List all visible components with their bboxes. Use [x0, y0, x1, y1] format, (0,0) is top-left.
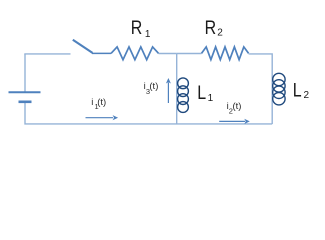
current arrow i1	[86, 115, 119, 120]
battery B1 short plate	[19, 101, 32, 104]
svg-text:1: 1	[145, 29, 151, 40]
label L2	[293, 79, 302, 101]
svg-text:1: 1	[208, 93, 214, 104]
svg-text:i: i	[91, 97, 93, 108]
svg-text:R: R	[131, 17, 143, 39]
label R1	[131, 17, 143, 39]
inductor L2 coil	[273, 73, 285, 105]
svg-text:L: L	[197, 81, 206, 103]
svg-text:2: 2	[217, 27, 223, 38]
battery B1 long plate	[9, 91, 41, 93]
wire switch to R1	[92, 52, 111, 54]
label i2(t)	[227, 101, 242, 115]
current arrow i3 (up)	[166, 78, 171, 103]
svg-text:L: L	[293, 79, 302, 101]
svg-text:(t): (t)	[233, 101, 242, 112]
resistor R2	[202, 47, 249, 60]
label i3(t)	[144, 81, 159, 96]
label R2	[205, 17, 217, 39]
wire node A to R2	[177, 53, 202, 55]
label L1	[197, 81, 206, 103]
svg-text:R: R	[205, 17, 217, 39]
svg-text:2: 2	[304, 90, 310, 101]
current arrow i2	[219, 119, 250, 124]
resistor R1	[111, 47, 159, 60]
svg-text:(t): (t)	[97, 97, 106, 108]
wire battery bottom lead and bottom horizontal	[25, 103, 272, 124]
wire R2 to top right corner and right vertical	[249, 54, 273, 124]
wire middle branch vertical	[176, 54, 178, 125]
wire R1 to node A	[159, 53, 177, 55]
inductor L1 coil	[178, 78, 189, 113]
wire top left horizontal	[24, 53, 70, 55]
switch S1 blade	[73, 40, 93, 53]
svg-text:(t): (t)	[149, 81, 158, 92]
label i1(t)	[91, 97, 106, 111]
wire left vertical (battery top lead)	[24, 54, 26, 92]
